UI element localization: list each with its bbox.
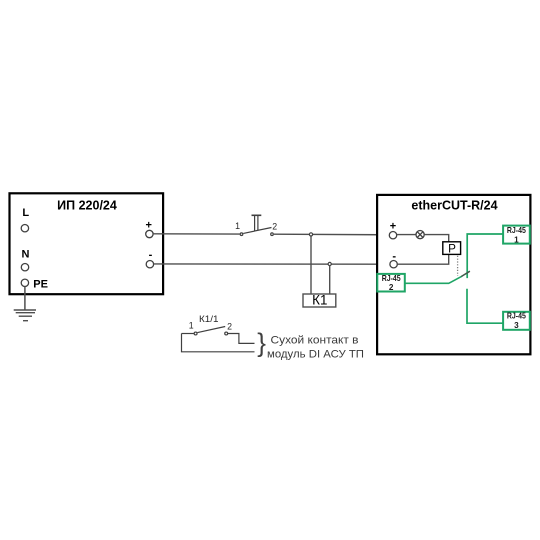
junction node on - wire — [328, 262, 331, 265]
svg-text:К1/1: К1/1 — [199, 314, 219, 324]
svg-text:Сухой контакт в: Сухой контакт в — [271, 335, 359, 347]
svg-text:PE: PE — [33, 279, 48, 291]
RJ-45 port 1 box — [503, 226, 530, 244]
terminal - of power supply — [146, 261, 153, 268]
svg-text:}: } — [257, 327, 266, 357]
svg-text:etherCUT-R/24: etherCUT-R/24 — [411, 199, 497, 213]
relay coil K1 — [303, 294, 336, 307]
wire: contact 2 lead to brace — [228, 334, 255, 344]
svg-text:модуль DI АСУ ТП: модуль DI АСУ ТП — [267, 348, 364, 360]
power supply box ИП 220/24 — [10, 193, 164, 294]
green wire: lower throw to RJ-45 3 — [467, 289, 503, 323]
svg-text:P: P — [448, 243, 456, 256]
green wire: RJ-45 2 to changeover common — [405, 282, 449, 284]
changeover blade tip (dark) — [461, 271, 470, 276]
svg-text:2: 2 — [389, 283, 394, 292]
svg-text:+: + — [390, 221, 396, 233]
ground — [14, 310, 36, 321]
svg-text:L: L — [22, 207, 29, 219]
wire: PS - terminal to etherCUT - terminal — [154, 263, 390, 265]
terminal L — [21, 225, 28, 232]
svg-text:-: - — [149, 249, 153, 261]
green wire: upper throw to RJ-45 1 — [467, 234, 503, 278]
terminal + of etherCUT — [389, 232, 396, 239]
wire: PS + terminal to switch contact 1 — [153, 233, 240, 235]
wire: + terminal to lamp — [397, 234, 416, 236]
wire: junction down to K1 coil — [329, 266, 331, 294]
dry contact K1/1: contact 1 — [194, 332, 197, 335]
wire: switch contact 2 to etherCUT + terminal — [274, 233, 389, 236]
wire: junction down to K1 coil — [310, 236, 312, 294]
green changeover blade — [449, 276, 462, 283]
svg-text:1: 1 — [514, 236, 519, 245]
wire PE to ground — [24, 287, 26, 311]
indicator lamp HL1 — [416, 231, 424, 239]
wire: lamp to relay P (top side) — [424, 235, 449, 242]
svg-text:К1: К1 — [312, 293, 327, 308]
dotted mechanical link from P to changeover contact — [457, 256, 459, 276]
terminal + of power supply — [146, 230, 153, 237]
terminal N — [21, 264, 28, 271]
svg-text:1: 1 — [235, 221, 240, 231]
RJ-45 port 2 box — [377, 274, 405, 292]
svg-text:RJ-45: RJ-45 — [382, 274, 401, 283]
etherCUT-R/24 box — [377, 195, 530, 354]
push button S1: plunger — [252, 215, 262, 231]
dry contact K1/1: left lead — [182, 333, 194, 335]
push button S1: contact 2 — [271, 233, 274, 236]
svg-text:RJ-45: RJ-45 — [507, 311, 526, 320]
push button S1: contact 1 — [240, 233, 243, 236]
wire: contact 1 lead to brace — [182, 334, 255, 352]
svg-text:3: 3 — [514, 321, 519, 330]
dry contact K1/1: contact 2 — [225, 332, 228, 335]
svg-text:N: N — [22, 249, 30, 261]
svg-text:ИП 220/24: ИП 220/24 — [57, 199, 117, 213]
svg-text:RJ-45: RJ-45 — [507, 226, 526, 235]
wire: - terminal to relay P (bottom side) — [397, 255, 448, 265]
svg-text:2: 2 — [272, 221, 277, 231]
push button S1: blade — [243, 228, 271, 234]
RJ-45 port 3 box — [503, 312, 530, 330]
terminal PE — [21, 279, 28, 286]
svg-text:2: 2 — [227, 321, 232, 331]
dry contact K1/1: blade — [198, 327, 226, 333]
svg-text:1: 1 — [189, 321, 194, 331]
relay P — [443, 242, 461, 255]
junction node on + wire — [309, 233, 312, 236]
terminal - of etherCUT — [390, 261, 397, 268]
